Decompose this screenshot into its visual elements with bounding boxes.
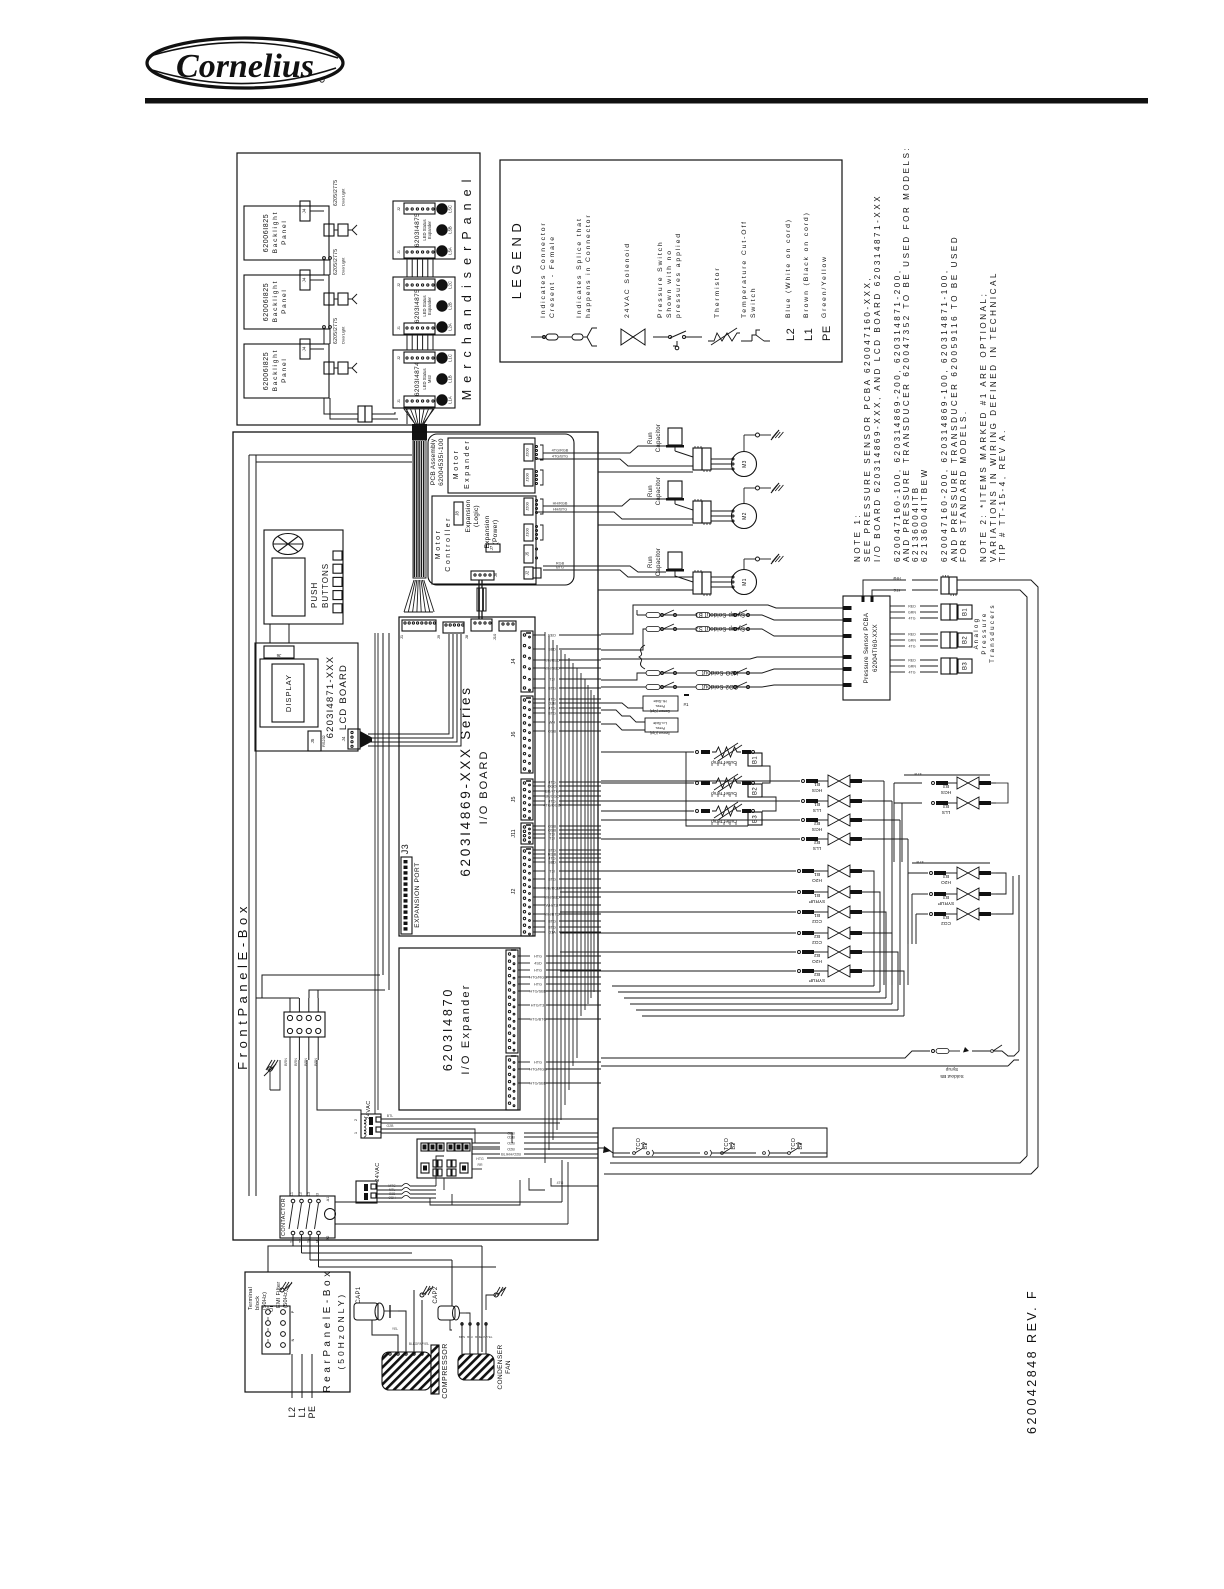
- svg-text:GRN/YEL: GRN/YEL: [479, 1335, 493, 1339]
- svg-text:EXPANSION PORT: EXPANSION PORT: [414, 862, 421, 928]
- svg-text:M2: M2: [742, 512, 748, 520]
- svg-text:RED: RED: [908, 605, 916, 609]
- svg-text:24VAC: 24VAC: [375, 1162, 381, 1182]
- svg-text:HTG/BTG: HTG/BTG: [530, 1018, 547, 1022]
- svg-text:B a c k l i g h t: B a c k l i g h t: [272, 350, 279, 391]
- svg-text:GRN: GRN: [908, 639, 916, 643]
- svg-text:CONTACTOR: CONTACTOR: [281, 1198, 287, 1236]
- svg-text:VARIATIONS IN WIRING DEFINED I: VARIATIONS IN WIRING DEFINED IN TECHNICA…: [989, 271, 998, 562]
- svg-text:M e r c h a n d i s e r P a: M e r c h a n d i s e r P a n e l: [460, 178, 474, 400]
- svg-text:J200: J200: [525, 501, 530, 510]
- svg-text:4TG: 4TG: [893, 588, 900, 592]
- svg-text:B2: B2: [814, 839, 820, 845]
- svg-text:62004TI60-XXX: 62004TI60-XXX: [872, 624, 879, 672]
- svg-text:6205I2775: 6205I2775: [333, 180, 339, 206]
- svg-text:SYRUP: SYRUP: [809, 898, 826, 904]
- svg-text:L2A: L2A: [448, 323, 453, 331]
- svg-text:P a n e l: P a n e l: [281, 290, 288, 314]
- svg-text:6203I4871-XXX: 6203I4871-XXX: [325, 656, 336, 739]
- svg-text:M o t o r: M o t o r: [435, 530, 442, 559]
- svg-text:RED: RED: [908, 633, 916, 637]
- svg-text:BRN: BRN: [459, 1335, 465, 1339]
- svg-text:SYRUP: SYRUP: [809, 977, 826, 983]
- svg-text:HGS: HGS: [941, 789, 951, 795]
- svg-text:P: P: [291, 1310, 295, 1313]
- svg-text:L1C: L1C: [448, 354, 453, 362]
- svg-text:62136004ITBEW: 62136004ITBEW: [920, 467, 929, 562]
- svg-text:WH/RED: WH/RED: [544, 659, 560, 663]
- svg-text:Blue (White on cord): Blue (White on cord): [785, 218, 792, 318]
- svg-text:L5A: L5A: [448, 247, 453, 255]
- svg-text:WH/RGB: WH/RGB: [544, 887, 560, 891]
- svg-text:M1: M1: [742, 578, 748, 586]
- svg-text:J7: J7: [489, 545, 494, 550]
- svg-text:I/O Expander: I/O Expander: [460, 983, 472, 1074]
- svg-text:Temperature Cut-Off: Temperature Cut-Off: [741, 220, 748, 318]
- svg-text:B3: B3: [943, 803, 949, 809]
- svg-text:6203I4870: 6203I4870: [441, 987, 455, 1071]
- svg-text:Pressure Sensor PCBA: Pressure Sensor PCBA: [863, 612, 870, 683]
- svg-text:B3: B3: [753, 815, 759, 823]
- svg-text:C o n t r o l l e r: C o n t r o l l e r: [445, 518, 452, 572]
- svg-text:A n a l o g: A n a l o g: [973, 618, 980, 649]
- svg-text:HGS: HGS: [812, 826, 822, 832]
- svg-text:Sensor (Opt): Sensor (Opt): [650, 731, 670, 735]
- svg-text:J4: J4: [341, 736, 346, 741]
- svg-text:Press.: Press.: [655, 726, 665, 730]
- svg-text:LCD BOARD: LCD BOARD: [338, 664, 349, 730]
- svg-text:H2O: H2O: [812, 958, 822, 964]
- svg-text:B3: B3: [943, 894, 949, 900]
- svg-text:B3: B3: [943, 783, 949, 789]
- svg-text:B2: B2: [753, 787, 759, 795]
- svg-text:J100: J100: [525, 527, 530, 536]
- svg-text:4TG: 4TG: [557, 1181, 564, 1185]
- svg-text:J5: J5: [511, 797, 517, 803]
- svg-text:Indicates Splice that: Indicates Splice that: [576, 217, 583, 318]
- svg-text:6203I4874: 6203I4874: [414, 362, 421, 396]
- svg-text:(Power): (Power): [492, 520, 499, 545]
- svg-text:( 5 0 H z O N L Y ): ( 5 0 H z O N L Y ): [336, 1295, 346, 1370]
- svg-text:CONDENSER: CONDENSER: [497, 1344, 504, 1389]
- svg-text:Switch: Switch: [750, 287, 757, 318]
- svg-text:L5C: L5C: [448, 205, 453, 213]
- svg-text:HGS: HGS: [812, 787, 822, 793]
- svg-text:J8: J8: [455, 511, 460, 516]
- svg-text:620047160-100, 620314869-200,: 620047160-100, 620314869-200, 620314871-…: [893, 268, 902, 562]
- svg-text:CAP1: CAP1: [356, 1286, 362, 1304]
- svg-text:Sensor (Opt): Sensor (Opt): [650, 709, 670, 713]
- svg-text:J6: J6: [511, 732, 517, 738]
- svg-text:Lo-Side: Lo-Side: [652, 721, 667, 726]
- svg-text:J4: J4: [302, 277, 307, 282]
- svg-text:Mstr: Mstr: [427, 374, 432, 383]
- svg-text:62004535I-100: 62004535I-100: [438, 438, 445, 486]
- svg-text:#1: #1: [683, 702, 689, 707]
- svg-text:BUTTONS: BUTTONS: [321, 563, 330, 608]
- svg-text:O2B: O2B: [386, 1124, 394, 1128]
- svg-text:happens in Connector: happens in Connector: [585, 213, 592, 318]
- svg-text:J2: J2: [525, 570, 530, 575]
- svg-text:J6: J6: [276, 653, 281, 658]
- svg-text:Indicates Connector: Indicates Connector: [540, 221, 547, 318]
- svg-text:N: N: [291, 1338, 295, 1341]
- svg-text:Thermistor: Thermistor: [714, 267, 721, 318]
- svg-text:Run: Run: [648, 485, 654, 497]
- svg-text:620042848 REV. F: 620042848 REV. F: [1025, 1289, 1039, 1434]
- svg-text:GRN: GRN: [908, 665, 916, 669]
- svg-text:HTG: HTG: [534, 969, 542, 973]
- svg-text:WH/SBD: WH/SBD: [544, 896, 559, 900]
- svg-text:L1: L1: [290, 1192, 294, 1196]
- svg-text:6203I4875: 6203I4875: [414, 289, 421, 323]
- svg-text:B1: B1: [643, 1142, 649, 1149]
- svg-text:Expander: Expander: [427, 296, 432, 315]
- svg-text:EMI Filter: EMI Filter: [276, 1281, 282, 1308]
- svg-text:4TG/RGB: 4TG/RGB: [552, 449, 569, 453]
- svg-text:J2: J2: [511, 889, 517, 895]
- svg-text:4TG: 4TG: [909, 671, 916, 675]
- svg-text:T3I: T3I: [549, 837, 555, 841]
- svg-text:L1: L1: [803, 328, 815, 341]
- svg-text:COMPRESSOR: COMPRESSOR: [442, 1343, 449, 1399]
- svg-text:GRN/YEL: GRN/YEL: [415, 1342, 430, 1346]
- svg-text:620047160-200, 620314869-100,: 620047160-200, 620314869-100, 620314871-…: [940, 268, 949, 562]
- svg-text:L3: L3: [307, 1192, 311, 1196]
- svg-text:J3: J3: [400, 844, 410, 855]
- svg-text:A2: A2: [326, 1236, 330, 1241]
- svg-text:WH: WH: [549, 721, 556, 725]
- svg-text:J10: J10: [492, 633, 497, 640]
- svg-text:HTG: HTG: [534, 1061, 542, 1065]
- svg-text:Cresent - Female: Cresent - Female: [549, 235, 556, 318]
- svg-text:J4: J4: [302, 208, 307, 213]
- svg-text:Terminal: Terminal: [248, 1287, 254, 1310]
- svg-text:B3: B3: [943, 873, 949, 879]
- svg-text:B2: B2: [814, 952, 820, 958]
- svg-text:T3I: T3I: [549, 870, 555, 874]
- svg-text:B a c k l i g h t: B a c k l i g h t: [272, 281, 279, 322]
- svg-text:R e a r P a n e l E - B o: R e a r P a n e l E - B o x: [322, 1271, 333, 1392]
- svg-text:PUSH: PUSH: [310, 582, 319, 608]
- svg-text:4TG: 4TG: [916, 860, 923, 864]
- svg-text:J4: J4: [302, 346, 307, 351]
- svg-text:Capacitor: Capacitor: [656, 477, 662, 505]
- svg-text:B1: B1: [814, 781, 820, 787]
- svg-text:CO2: CO2: [941, 920, 951, 926]
- svg-text:Capacitor: Capacitor: [656, 424, 662, 452]
- svg-text:DoorLight: DoorLight: [341, 257, 346, 275]
- svg-text:P r e s s u r e: P r e s s u r e: [981, 613, 988, 654]
- svg-text:H2O: H2O: [941, 879, 951, 885]
- svg-text:Shown with no: Shown with no: [666, 249, 673, 318]
- svg-text:B1: B1: [814, 892, 820, 898]
- svg-text:TIP # TT-15-4, REV A.: TIP # TT-15-4, REV A.: [998, 428, 1007, 562]
- svg-text:NOTE 2: *ITEMS MARKED #1 ARE O: NOTE 2: *ITEMS MARKED #1 ARE OPTIONAL;: [979, 292, 988, 562]
- svg-text:Run: Run: [648, 432, 654, 444]
- svg-text:62136004ITB: 62136004ITB: [911, 485, 920, 562]
- svg-text:Hi-Side: Hi-Side: [653, 699, 667, 704]
- svg-text:J2: J2: [397, 356, 401, 360]
- svg-text:FOR STANDARD MODELS.: FOR STANDARD MODELS.: [959, 409, 968, 562]
- svg-text:L5B: L5B: [448, 226, 453, 234]
- svg-text:HTG/RGB: HTG/RGB: [529, 976, 547, 980]
- svg-text:GRN: GRN: [908, 611, 916, 615]
- svg-text:6203I4875: 6203I4875: [414, 213, 421, 247]
- svg-text:J1: J1: [397, 250, 401, 254]
- svg-text:H2O: H2O: [812, 877, 822, 883]
- svg-text:L2C: L2C: [448, 281, 453, 289]
- svg-text:B2: B2: [814, 933, 820, 939]
- svg-text:T3I: T3I: [549, 678, 555, 682]
- svg-text:O2B: O2B: [507, 1148, 515, 1152]
- svg-text:P a n e l: P a n e l: [281, 221, 288, 245]
- svg-text:I3: I3: [316, 1193, 320, 1196]
- svg-text:B1: B1: [814, 801, 820, 807]
- svg-text:BRN: BRN: [284, 1058, 288, 1066]
- svg-text:Expansion: Expansion: [465, 499, 472, 532]
- svg-text:B3: B3: [943, 914, 949, 920]
- svg-text:4TG/OGO: 4TG/OGO: [543, 804, 560, 808]
- svg-text:HTG: HTG: [534, 983, 542, 987]
- svg-text:4TG: 4TG: [909, 645, 916, 649]
- svg-text:B2: B2: [814, 971, 820, 977]
- svg-text:FAN: FAN: [505, 1360, 512, 1374]
- svg-text:B2: B2: [814, 820, 820, 826]
- svg-text:Pressure Switch: Pressure Switch: [657, 240, 664, 318]
- svg-text:HTG/SBD: HTG/SBD: [530, 1082, 547, 1086]
- svg-text:H2O Soldout: H2O Soldout: [702, 669, 739, 675]
- svg-text:B1: B1: [753, 756, 759, 764]
- svg-text:J1: J1: [397, 326, 401, 330]
- svg-text:4SD: 4SD: [534, 962, 542, 966]
- svg-text:AND PRESSURE TRANSDUCER 620047: AND PRESSURE TRANSDUCER 620047352 TO BE …: [902, 146, 911, 562]
- svg-text:B1: B1: [963, 608, 969, 616]
- svg-text:Brown (Black on cord): Brown (Black on cord): [803, 211, 810, 318]
- svg-text:A1: A1: [326, 1197, 330, 1202]
- svg-text:HTG/T3I: HTG/T3I: [531, 1004, 546, 1008]
- svg-text:L2B: L2B: [448, 302, 453, 310]
- svg-text:Run: Run: [648, 556, 654, 568]
- svg-text:CAP2: CAP2: [433, 1286, 439, 1304]
- svg-text:B2: B2: [731, 1142, 737, 1149]
- svg-text:SYRUP: SYRUP: [938, 900, 955, 906]
- svg-text:J4: J4: [511, 659, 517, 665]
- svg-text:B a c k l i g h t: B a c k l i g h t: [272, 212, 279, 253]
- svg-text:T r a n s d u c e r s: T r a n s d u c e r s: [989, 605, 996, 663]
- svg-text:F r o n t P a n e l E - B: F r o n t P a n e l E - B o x: [235, 906, 250, 1070]
- svg-text:HTG: HTG: [534, 955, 542, 959]
- svg-text:LLS: LLS: [813, 807, 822, 813]
- svg-text:4TG: 4TG: [909, 617, 916, 621]
- svg-text:LLS: LLS: [813, 845, 822, 851]
- svg-text:CO2: CO2: [812, 939, 822, 945]
- svg-text:J2: J2: [397, 207, 401, 211]
- svg-text:BLU: BLU: [467, 1335, 473, 1339]
- svg-text:B3: B3: [963, 662, 969, 670]
- svg-text:WH/SBD: WH/SBD: [544, 667, 559, 671]
- svg-text:OBH: OBH: [388, 1196, 396, 1200]
- svg-text:Syrup: Syrup: [945, 1066, 958, 1072]
- svg-text:L1: L1: [297, 1406, 307, 1417]
- svg-text:Green/Yellow: Green/Yellow: [821, 255, 828, 318]
- svg-text:HH#: HH#: [893, 576, 900, 580]
- svg-text:PCB Assembly: PCB Assembly: [430, 438, 437, 485]
- svg-text:HTG/RGB: HTG/RGB: [529, 1068, 547, 1072]
- svg-text:B1: B1: [814, 871, 820, 877]
- svg-text:J5: J5: [525, 551, 530, 556]
- svg-text:M o t o r: M o t o r: [453, 450, 460, 479]
- svg-text:M3: M3: [742, 460, 748, 468]
- svg-text:L1A: L1A: [448, 396, 453, 404]
- svg-text:L2: L2: [287, 1406, 297, 1417]
- svg-text:BRN: BRN: [294, 1058, 298, 1066]
- svg-text:L2: L2: [785, 328, 797, 341]
- svg-text:E x p a n d e r: E x p a n d e r: [464, 441, 471, 489]
- svg-text:HH/RGB: HH/RGB: [553, 502, 568, 506]
- svg-text:L E G E N D: L E G E N D: [509, 223, 524, 300]
- svg-text:BTL: BTL: [387, 1114, 393, 1118]
- svg-text:I/O BOARD: I/O BOARD: [478, 750, 490, 825]
- svg-text:NOTE 1:: NOTE 1:: [853, 513, 862, 562]
- svg-text:I/O BOARD 620314869-XXX, AND L: I/O BOARD 620314869-XXX, AND LCD BOARD 6…: [873, 194, 882, 562]
- svg-text:62006I825: 62006I825: [263, 214, 270, 253]
- svg-text:pressures applied: pressures applied: [675, 232, 682, 318]
- svg-text:62006I825: 62006I825: [263, 283, 270, 322]
- svg-text:6205I2775: 6205I2775: [333, 249, 339, 275]
- svg-text:B1: B1: [814, 912, 820, 918]
- svg-text:SEE PRESSURE SENSOR PCBA 62004: SEE PRESSURE SENSOR PCBA 620047160-XXX,: [863, 276, 872, 562]
- svg-text:LLS: LLS: [942, 809, 951, 815]
- svg-text:Soldout B5: Soldout B5: [940, 1073, 964, 1079]
- svg-text:6205I2775: 6205I2775: [333, 318, 339, 344]
- svg-text:24VAC: 24VAC: [366, 1100, 372, 1120]
- svg-text:P a n e l: P a n e l: [281, 359, 288, 383]
- svg-text:WH/T3I: WH/T3I: [546, 904, 559, 908]
- svg-text:4TG: 4TG: [914, 772, 921, 776]
- svg-text:J11: J11: [511, 829, 517, 837]
- svg-text:HTG/SBD: HTG/SBD: [530, 990, 547, 994]
- svg-text:PE: PE: [307, 1405, 317, 1418]
- svg-text:O2B: O2B: [507, 1142, 515, 1146]
- svg-text:24VAC Solenoid: 24VAC Solenoid: [624, 242, 631, 318]
- svg-text:BLIHH/O2B: BLIHH/O2B: [501, 1153, 521, 1157]
- svg-text:DoorLight: DoorLight: [341, 326, 346, 344]
- svg-text:(50Hz): (50Hz): [283, 1290, 289, 1308]
- svg-text:RR: RR: [477, 1163, 483, 1167]
- svg-text:BTG: BTG: [556, 566, 564, 570]
- svg-text:block: block: [255, 1296, 261, 1310]
- svg-text:J100: J100: [525, 472, 530, 481]
- svg-text:O3B: O3B: [507, 1136, 515, 1140]
- svg-text:YEL: YEL: [392, 1327, 398, 1331]
- svg-text:RED: RED: [908, 659, 916, 663]
- svg-text:DoorLight: DoorLight: [341, 188, 346, 206]
- svg-text:4TG/BTG: 4TG/BTG: [552, 455, 568, 459]
- svg-text:J2: J2: [397, 283, 401, 287]
- svg-text:CO2 Soldout: CO2 Soldout: [702, 683, 739, 689]
- svg-text:Cornelius: Cornelius: [176, 48, 314, 85]
- svg-text:DISPLAY: DISPLAY: [284, 674, 293, 712]
- svg-text:CO2: CO2: [812, 918, 822, 924]
- svg-text:AND PRESSURE TRANSDUCER 620059: AND PRESSURE TRANSDUCER 620059116 TO BE …: [950, 235, 959, 562]
- svg-text:L1B: L1B: [448, 375, 453, 383]
- svg-text:62006I825: 62006I825: [263, 352, 270, 391]
- svg-text:B2: B2: [963, 636, 969, 644]
- svg-text:Press.: Press.: [655, 704, 665, 708]
- svg-text:PE: PE: [821, 325, 833, 341]
- svg-text:Expander: Expander: [427, 220, 432, 239]
- svg-text:HTG: HTG: [476, 1157, 484, 1161]
- svg-text:L2: L2: [299, 1192, 303, 1196]
- svg-text:J200: J200: [525, 447, 530, 456]
- svg-text:6203I4869-XXX Series: 6203I4869-XXX Series: [458, 685, 473, 876]
- svg-text:(Logic): (Logic): [473, 505, 480, 527]
- svg-text:RS232: RS232: [322, 735, 326, 747]
- svg-text:J1: J1: [397, 399, 401, 403]
- svg-text:B3: B3: [798, 1142, 804, 1149]
- svg-text:J5: J5: [310, 738, 315, 743]
- svg-text:HH/BTG: HH/BTG: [553, 508, 567, 512]
- svg-text:(50Hz): (50Hz): [262, 1292, 268, 1310]
